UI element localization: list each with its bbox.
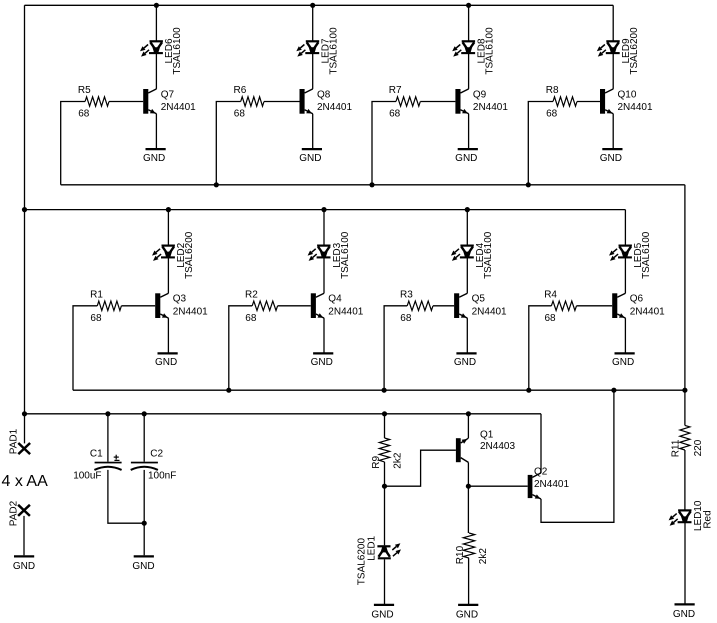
wire Q6 emitter to ground	[624, 318, 626, 353]
ground below Q3	[155, 353, 178, 368]
svg-text:GND: GND	[673, 609, 695, 620]
LED LED2 TSAL6200	[152, 231, 195, 279]
transistor Q5 2N4401	[454, 293, 507, 318]
transistor Q7 2N4401	[143, 89, 196, 114]
wire R8 left to base bus	[528, 102, 553, 185]
junction supply bus on left rail	[22, 411, 27, 416]
wire R5 left to base bus	[61, 102, 85, 185]
resistor R3 68	[400, 289, 433, 324]
wire C2 top	[143, 414, 145, 462]
svg-text:R8: R8	[546, 85, 559, 96]
svg-text:GND: GND	[13, 561, 35, 572]
wire R9 top	[384, 414, 386, 438]
svg-text:2N4403: 2N4403	[480, 441, 515, 452]
LED LED9 TSAL6200	[597, 27, 640, 75]
junction top bus at LED8	[466, 3, 471, 8]
ground below Q5	[454, 353, 477, 368]
junction C1 on supply bus	[105, 411, 110, 416]
wire PAD1 stub	[24, 414, 26, 444]
transistor Q10 2N4401	[600, 89, 653, 114]
svg-text:R7: R7	[389, 85, 402, 96]
svg-text:GND: GND	[155, 357, 177, 368]
svg-text:R3: R3	[400, 289, 413, 300]
svg-text:TSAL6100: TSAL6100	[484, 27, 495, 75]
wire C1 bottom link to C2	[108, 470, 144, 523]
wire Q3 emitter to ground	[167, 318, 169, 353]
LED LED8 TSAL6100	[452, 27, 495, 75]
svg-text:Q6: Q6	[630, 294, 644, 305]
wire right rail row1 base bus down to R11	[684, 185, 686, 426]
junction R4 drop on base bus	[526, 388, 531, 393]
wire Q10 emitter to ground	[612, 114, 614, 149]
resistor R5 68	[78, 85, 109, 120]
ground below C2	[132, 556, 154, 572]
wire LED6 cathode to Q7 collector	[155, 53, 157, 89]
wire R6 to Q8 base	[264, 101, 300, 103]
svg-text:2k2: 2k2	[478, 548, 489, 565]
svg-text:2N4401: 2N4401	[630, 307, 665, 318]
wire R6 left to base bus	[216, 102, 240, 185]
svg-text:68: 68	[545, 313, 557, 324]
svg-text:68: 68	[78, 109, 90, 120]
ground below Q10	[600, 149, 623, 164]
pad PAD2	[8, 500, 30, 526]
wire R1 to Q3 base	[121, 305, 155, 307]
svg-text:PAD1: PAD1	[8, 428, 19, 454]
svg-text:2N4401: 2N4401	[534, 479, 569, 490]
junction row2 bus at LED4	[465, 207, 470, 212]
capacitor C2 100nF	[131, 449, 177, 482]
junction Q1 emitter on supply bus	[466, 411, 471, 416]
junction C2 on supply bus	[142, 411, 147, 416]
svg-text:Q8: Q8	[317, 89, 331, 100]
svg-text:Q10: Q10	[618, 89, 637, 100]
wire Q2 emitter to row2 base bus	[541, 390, 614, 522]
svg-text:LED1: LED1	[367, 535, 378, 560]
svg-text:2N4401: 2N4401	[173, 307, 208, 318]
junction C1-C2 ground link	[142, 521, 147, 526]
transistor Q3 2N4401	[155, 293, 208, 318]
svg-text:100nF: 100nF	[148, 471, 176, 482]
wire Q2 collector to supply corner	[540, 414, 542, 473]
wire R11 to LED10	[684, 450, 686, 510]
wire LED1 to ground	[384, 559, 386, 604]
svg-text:Q5: Q5	[472, 294, 486, 305]
LED LED3 TSAL6100	[308, 231, 351, 279]
wire LED5 anode stub	[624, 210, 626, 246]
svg-text:GND: GND	[600, 153, 622, 164]
wire top anode bus row 1	[25, 4, 614, 6]
svg-text:TSAL6100: TSAL6100	[483, 231, 494, 279]
wire R5 to Q7 base	[109, 101, 143, 103]
wire row1 base-drive bus	[61, 184, 685, 186]
wire LED3 cathode to Q4 collector	[323, 257, 325, 293]
svg-text:Q3: Q3	[173, 294, 187, 305]
svg-text:GND: GND	[143, 153, 165, 164]
junction node A	[382, 484, 387, 489]
wire PAD2 to ground	[23, 516, 25, 555]
wire R7 left to base bus	[372, 102, 396, 185]
wire R4 left to base bus	[529, 306, 552, 390]
svg-text:TSAL6100: TSAL6100	[641, 231, 652, 279]
transistor Q2 2N4401	[528, 467, 570, 499]
ground below Q8	[299, 149, 322, 164]
ground below PAD2	[13, 556, 35, 572]
svg-text:2N4401: 2N4401	[472, 307, 507, 318]
svg-text:GND: GND	[371, 609, 393, 620]
resistor R7 68	[389, 85, 421, 120]
svg-text:68: 68	[400, 313, 412, 324]
transistor Q4 2N4401	[311, 293, 364, 318]
wire R3 left to base bus	[384, 306, 407, 390]
ground below Q6	[612, 353, 635, 368]
wire R2 left to base bus	[229, 306, 252, 390]
pad PAD1	[8, 428, 30, 454]
svg-text:GND: GND	[455, 153, 477, 164]
junction node B	[466, 484, 471, 489]
svg-text:GND: GND	[612, 357, 634, 368]
wire LED10 to ground	[684, 523, 686, 604]
svg-text:68: 68	[234, 109, 246, 120]
svg-text:2N4401: 2N4401	[161, 102, 196, 113]
svg-text:PAD2: PAD2	[8, 500, 19, 526]
wire LED3 anode stub	[323, 210, 325, 246]
junction right rail on row2 base bus	[682, 388, 687, 393]
wire R3 to Q5 base	[433, 305, 454, 307]
resistor R1 68	[90, 289, 121, 324]
label 4 x AA battery	[2, 473, 49, 490]
resistor R4 68	[544, 289, 576, 324]
junction Q2 emitter feed on row2 base bus	[611, 388, 616, 393]
wire Q7 emitter to ground	[155, 114, 157, 149]
wire R11 feed	[684, 424, 686, 426]
svg-text:Q1: Q1	[480, 430, 494, 441]
svg-text:R5: R5	[78, 85, 91, 96]
wire row2 base-drive bus	[73, 389, 685, 391]
svg-text:GND: GND	[456, 609, 478, 620]
ground below Q4	[311, 353, 334, 368]
ground below R10	[456, 605, 478, 621]
svg-text:C1: C1	[90, 449, 103, 460]
transistor Q1 2N4403	[456, 430, 516, 463]
wire LED9 cathode to Q10 collector	[612, 53, 614, 89]
junction R7 drop on base bus	[369, 182, 374, 187]
svg-text:68: 68	[90, 313, 102, 324]
wire LED7 cathode to Q8 collector	[312, 53, 314, 89]
wire Q5 emitter to ground	[466, 318, 468, 353]
svg-text:100uF: 100uF	[73, 471, 101, 482]
wire node B to Q2 base	[468, 485, 527, 487]
wire LED6 anode stub	[155, 5, 157, 41]
resistor R2 68	[245, 289, 278, 324]
resistor R6 68	[234, 85, 265, 120]
junction row2 anode bus on left rail	[22, 207, 27, 212]
svg-text:TSAL6200: TSAL6200	[629, 27, 640, 75]
junction row2 bus at LED2	[166, 207, 171, 212]
svg-text:C2: C2	[150, 449, 163, 460]
wire LED7 anode stub	[312, 5, 314, 41]
svg-text:GND: GND	[132, 561, 154, 572]
wire R8 to Q10 base	[577, 101, 600, 103]
transistor Q6 2N4401	[612, 293, 665, 318]
wire LED5 cathode to Q6 collector	[624, 257, 626, 293]
junction R2 drop on base bus	[226, 388, 231, 393]
svg-text:R10: R10	[455, 545, 466, 564]
wire Q1 emitter stub	[467, 414, 469, 438]
wire Q4 emitter to ground	[323, 318, 325, 353]
LED LED7 TSAL6100	[296, 27, 339, 75]
svg-text:68: 68	[245, 313, 257, 324]
wire R9 to node A	[384, 462, 386, 486]
svg-text:Q9: Q9	[473, 89, 487, 100]
ground below Q7	[143, 149, 166, 164]
wire LED8 anode stub	[468, 5, 470, 41]
wire row2 anode bus	[25, 209, 626, 211]
wire R1 left to base bus	[73, 306, 97, 390]
svg-text:TSAL6100: TSAL6100	[329, 27, 340, 75]
wire LED8 cathode to Q9 collector	[468, 53, 470, 89]
wire R4 to Q6 base	[577, 305, 613, 307]
svg-text:GND: GND	[454, 357, 476, 368]
junction R3 drop on base bus	[382, 388, 387, 393]
wire C1 top	[107, 414, 109, 462]
resistor R8 68	[546, 85, 577, 120]
transistor Q8 2N4401	[300, 89, 353, 114]
junction R8 drop on base bus	[526, 182, 531, 187]
LED LED5 TSAL6100	[609, 231, 652, 279]
svg-text:4 x AA: 4 x AA	[2, 473, 49, 490]
transistor Q9 2N4401	[455, 89, 508, 114]
svg-text:TSAL6100: TSAL6100	[172, 27, 183, 75]
wire node A to Q1 base	[385, 450, 456, 486]
resistor R9 2k2	[371, 438, 404, 469]
svg-text:2N4401: 2N4401	[618, 102, 653, 113]
junction top bus at LED7	[310, 3, 315, 8]
svg-text:TSAL6200: TSAL6200	[184, 231, 195, 279]
junction row2 bus at LED3	[321, 207, 326, 212]
svg-text:TSAL6100: TSAL6100	[340, 231, 351, 279]
wire Q1 collector to node B	[467, 462, 469, 486]
svg-text:R1: R1	[90, 289, 103, 300]
wire C2 to ground	[143, 470, 145, 555]
wire LED1 anode	[384, 486, 386, 545]
svg-text:Q4: Q4	[328, 294, 342, 305]
svg-text:220: 220	[693, 439, 704, 456]
wire LED4 anode stub	[466, 210, 468, 246]
wire Q9 emitter to ground	[468, 114, 470, 149]
svg-text:R6: R6	[234, 85, 247, 96]
svg-text:2k2: 2k2	[393, 452, 404, 469]
wire R10 to ground	[468, 558, 470, 604]
ground below Q9	[455, 149, 478, 164]
wire LED2 cathode to Q3 collector	[167, 257, 169, 293]
svg-text:R2: R2	[245, 289, 258, 300]
svg-text:Q7: Q7	[161, 89, 175, 100]
capacitor C1 100uF polarized	[73, 449, 121, 482]
wire node B to R10	[467, 486, 469, 533]
wire left supply rail	[24, 5, 26, 414]
svg-text:R11: R11	[671, 439, 682, 457]
svg-text:Red: Red	[702, 510, 713, 528]
ground below LED10	[673, 604, 695, 620]
junction top bus at LED6	[154, 3, 159, 8]
LED LED4 TSAL6100	[451, 231, 494, 279]
junction R9 on supply bus	[382, 411, 387, 416]
LED LED1 TSAL6200 flipped	[356, 535, 401, 585]
svg-text:2N4401: 2N4401	[473, 102, 508, 113]
svg-text:2N4401: 2N4401	[317, 102, 352, 113]
svg-text:R4: R4	[544, 289, 557, 300]
resistor R10 2k2	[455, 533, 489, 564]
svg-text:R9: R9	[371, 455, 382, 468]
svg-text:2N4401: 2N4401	[328, 307, 363, 318]
junction R6 drop on base bus	[214, 182, 219, 187]
wire LED4 cathode to Q5 collector	[466, 257, 468, 293]
ground below LED1	[371, 605, 394, 621]
wire LED2 anode stub	[167, 210, 169, 246]
svg-text:68: 68	[546, 109, 558, 120]
svg-text:68: 68	[389, 109, 401, 120]
wire LED9 anode stub	[612, 5, 614, 41]
wire R7 to Q9 base	[420, 101, 455, 103]
LED LED10 Red	[669, 500, 714, 531]
LED LED6 TSAL6100	[140, 27, 183, 75]
wire R2 to Q4 base	[278, 305, 311, 307]
svg-text:GND: GND	[299, 153, 321, 164]
wire supply bus	[25, 413, 542, 415]
svg-text:GND: GND	[311, 357, 333, 368]
wire Q8 emitter to ground	[312, 114, 314, 149]
resistor R11 220	[671, 425, 704, 457]
